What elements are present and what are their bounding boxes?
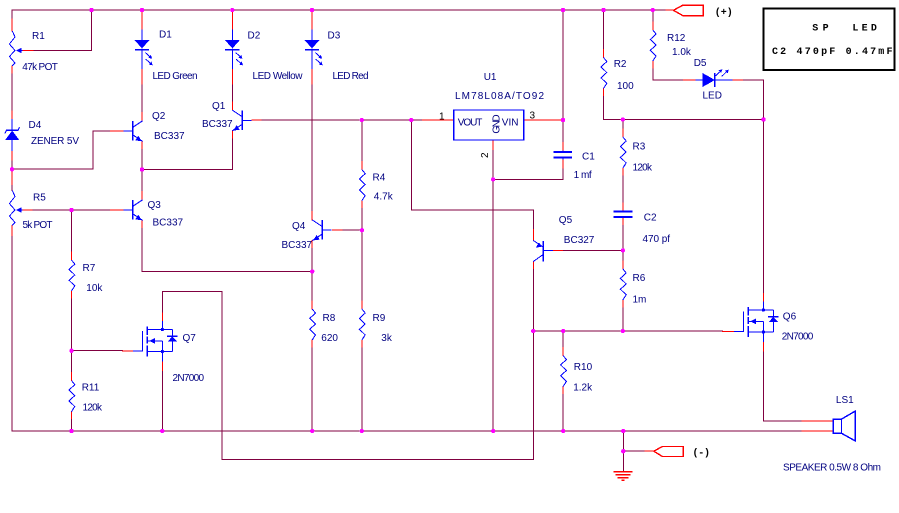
- svg-text:Q3: Q3: [148, 200, 162, 211]
- junction Q3-Q4 emitter node: [310, 269, 314, 273]
- pin Q7 drain: [161, 313, 163, 321]
- pin Q2 base: [111, 130, 124, 132]
- pin U1 pin3 VIN: [524, 119, 563, 121]
- junction zener node: [10, 167, 14, 171]
- pin R2 top: [603, 50, 605, 58]
- transistor Q2 (BC337 BJT): [124, 121, 143, 142]
- junction ground drop: [621, 429, 625, 433]
- transistor Q1 (BC337 BJT): [232, 110, 251, 131]
- zener diode D4: [5, 119, 20, 151]
- pin R6 bottom: [622, 300, 624, 308]
- pin R9 bottom: [361, 340, 363, 348]
- wire D5 to node: [744, 80, 764, 120]
- pin R1 top: [11, 19, 13, 31]
- pin R4 bottom: [361, 201, 363, 209]
- pin C2 top: [622, 203, 624, 211]
- pin Q6 gate: [722, 331, 734, 333]
- pin U1 pin1 VOUT: [422, 119, 453, 121]
- svg-text:(+): (+): [715, 7, 733, 19]
- svg-text:R9: R9: [373, 313, 386, 324]
- svg-text:BC337: BC337: [202, 119, 233, 130]
- svg-text:1.2k: 1.2k: [573, 382, 593, 393]
- resistor R11: [69, 381, 75, 412]
- junction Q2 emitter node: [140, 167, 144, 171]
- junction Q5 base/C2/R6: [621, 248, 625, 252]
- wire node to minus connector: [623, 450, 645, 452]
- wire VIN node to C1: [562, 120, 564, 143]
- junction Q5 emitter branch: [409, 118, 413, 122]
- wire Q7 source to ground bus: [161, 371, 163, 431]
- resistor R2: [601, 58, 607, 89]
- wire top supply rail: [12, 9, 673, 11]
- wire node to R9: [361, 230, 363, 301]
- junction R2/R3 node: [621, 117, 625, 121]
- svg-text:LED Wellow: LED Wellow: [253, 71, 304, 82]
- wire node to Q7 gate: [72, 350, 123, 352]
- svg-text:470 pf: 470 pf: [643, 234, 671, 245]
- capacitor C2: [614, 211, 633, 217]
- wire node to R4: [361, 120, 363, 161]
- wire R5 wiper to Q3 base: [33, 209, 111, 211]
- svg-text:D3: D3: [328, 31, 341, 42]
- ground: [613, 472, 632, 481]
- wire R9 to ground bus: [361, 348, 363, 431]
- svg-text:D4: D4: [29, 120, 42, 131]
- pin R11 top: [71, 373, 73, 381]
- svg-text:Q2: Q2: [152, 111, 166, 122]
- wire node to R7: [71, 210, 73, 252]
- junction R11/ground bus: [69, 429, 73, 433]
- svg-text:620: 620: [321, 333, 338, 344]
- pin Q6 drain: [762, 293, 764, 301]
- pin R8 top: [311, 301, 313, 309]
- svg-text:R2: R2: [614, 59, 627, 70]
- wire R5 bottom to ground bus: [11, 237, 13, 432]
- pin R11 bottom: [71, 412, 73, 420]
- wire node to R6: [622, 250, 624, 261]
- pin D5 cathode: [732, 79, 743, 81]
- svg-text:4.7k: 4.7k: [374, 191, 394, 202]
- pin C1 top: [562, 143, 564, 151]
- pin Q5 collector: [532, 262, 534, 270]
- wire node to ground symbol: [622, 451, 624, 471]
- resistor R10: [561, 356, 567, 387]
- wire Q5 collector to gate bus: [532, 270, 534, 332]
- pin C1 bottom: [562, 159, 564, 169]
- junction Q4 base/R4/R9: [360, 228, 364, 232]
- wire node to Q6 drain: [763, 120, 765, 294]
- pin R5 wiper: [23, 209, 33, 211]
- svg-text:BC337: BC337: [154, 131, 185, 142]
- svg-text:R4: R4: [373, 173, 386, 184]
- svg-text:Q1: Q1: [212, 101, 226, 112]
- pin D5 anode: [684, 79, 696, 81]
- node (-) supply connector: [654, 447, 684, 457]
- pin R3 top: [622, 129, 624, 137]
- svg-text:C1: C1: [582, 152, 595, 163]
- op-amp U1 LM78L08A/TO92 regulator box: [454, 110, 524, 140]
- svg-text:3: 3: [530, 111, 536, 122]
- svg-text:2N7000: 2N7000: [782, 332, 814, 343]
- wire gate bus to R10: [562, 331, 564, 348]
- pin R3 bottom: [622, 168, 624, 176]
- svg-text:R1: R1: [32, 31, 45, 42]
- wire ground bus: [12, 430, 802, 432]
- pin Q4 emitter: [311, 241, 313, 249]
- transistor Q4 (BC337 BJT): [312, 220, 331, 241]
- svg-text:Q5: Q5: [559, 215, 573, 226]
- pin R7 top: [71, 252, 73, 260]
- resistor R9: [359, 309, 365, 340]
- svg-text:D1: D1: [159, 30, 172, 41]
- svg-text:BC327: BC327: [564, 235, 595, 246]
- wire R3 to C2: [622, 176, 624, 203]
- wire Q4 emitter to node: [311, 249, 313, 272]
- pin D2 anode: [231, 10, 233, 29]
- wire Q4 base to node: [343, 229, 362, 231]
- svg-text:1.0k: 1.0k: [672, 47, 692, 58]
- junction rail/R12: [651, 8, 655, 12]
- svg-text:R3: R3: [633, 141, 646, 152]
- wire C1 bottom to U1 GND: [493, 169, 563, 179]
- wire R11 to ground bus: [71, 420, 73, 431]
- annotation table (SP / LED values): [764, 9, 895, 70]
- wire rail to R12: [652, 10, 654, 22]
- svg-text:( - ): ( - ): [693, 448, 711, 460]
- pin Q3 collector: [141, 192, 143, 200]
- pin LS1 top terminal: [802, 420, 833, 422]
- junction rail/D2: [230, 8, 234, 12]
- resistor R6: [620, 269, 626, 300]
- pin R8 bottom: [311, 340, 313, 348]
- junction R10/gate bus: [561, 329, 565, 333]
- transistor Q3 (BC337 BJT): [124, 200, 143, 221]
- svg-text:C2: C2: [644, 213, 657, 224]
- pin R12 top: [652, 22, 654, 30]
- wire R2 bottom to node: [604, 97, 623, 120]
- pin plus connector: [666, 9, 673, 11]
- pin D2 cathode: [231, 69, 233, 85]
- wire node to R11: [71, 351, 73, 373]
- svg-text:5k POT: 5k POT: [23, 220, 53, 231]
- junction U1 GND/C1 node: [491, 177, 495, 181]
- node (+) supply connector: [673, 5, 703, 15]
- junction rail/D1: [140, 8, 144, 12]
- svg-text:R11: R11: [82, 382, 100, 393]
- pin D3 anode: [311, 10, 313, 29]
- svg-text:R7: R7: [83, 263, 96, 274]
- svg-text:ZENER 5V: ZENER 5V: [31, 136, 79, 147]
- potentiometer R5: [9, 190, 22, 225]
- transistor Q6 (2N7000 MOSFET): [734, 301, 779, 342]
- pin Q1 collector: [231, 102, 233, 110]
- pin Q1 base: [252, 119, 262, 121]
- transistor Q5 (BC327 PNP): [533, 241, 553, 262]
- wire node to R3: [622, 120, 624, 130]
- svg-text:U1: U1: [484, 72, 497, 83]
- wire node to R8: [311, 272, 313, 302]
- pin D3 cathode: [311, 69, 313, 85]
- wire D3 to Q4 collector: [311, 85, 313, 212]
- junction GND net/ground bus: [491, 429, 495, 433]
- speaker LS1: [833, 411, 855, 441]
- wire gate bus to Q6: [533, 330, 722, 332]
- svg-text:2: 2: [480, 152, 491, 158]
- pin R9 top: [361, 301, 363, 309]
- pin Q5 emitter: [532, 229, 534, 240]
- pin R12 bottom: [652, 61, 654, 69]
- wire Q1 base to U1 pin1: [262, 119, 422, 121]
- wire node to D5 net: [623, 119, 764, 121]
- svg-text:R6: R6: [633, 273, 646, 284]
- junction R7/Q7 gate: [69, 349, 73, 353]
- svg-text:LS1: LS1: [836, 395, 854, 406]
- pin Q7 gate: [123, 350, 133, 352]
- potentiometer R1: [9, 31, 22, 66]
- svg-text:LED: LED: [852, 24, 877, 35]
- pin R7 bottom: [71, 291, 73, 299]
- pin Q4 collector: [311, 212, 313, 220]
- wire node to Q3 collector: [141, 170, 143, 192]
- svg-text:LED: LED: [703, 91, 722, 102]
- svg-text:1 mf: 1 mf: [574, 170, 592, 181]
- svg-text:VOUT: VOUT: [458, 117, 483, 128]
- wire zener node to Q2 base: [12, 131, 110, 169]
- transistor Q7 (2N7000 MOSFET): [133, 321, 178, 362]
- junction R4 top node: [360, 118, 364, 122]
- pin Q5 base: [553, 249, 563, 251]
- resistor R8: [310, 309, 316, 340]
- resistor R12: [650, 30, 656, 61]
- junction R9/ground bus: [360, 429, 364, 433]
- junction rail/VIN column: [561, 8, 565, 12]
- svg-text:Q6: Q6: [783, 312, 797, 323]
- LED D3: [305, 29, 323, 69]
- junction rail/D3: [310, 8, 314, 12]
- wire Q7 drain to Q5 collector net: [162, 291, 533, 459]
- pin D4 cathode: [11, 111, 13, 119]
- svg-text:47k POT: 47k POT: [22, 62, 58, 73]
- svg-text:LM78L08A/TO92: LM78L08A/TO92: [455, 91, 544, 102]
- svg-text:3k: 3k: [381, 333, 393, 344]
- svg-text:R10: R10: [574, 362, 593, 373]
- pin C2 bottom: [622, 218, 624, 226]
- svg-text:R8: R8: [323, 313, 336, 324]
- junction R8/ground bus: [310, 429, 314, 433]
- wire node to R5 top: [11, 169, 13, 171]
- junction minus connector node: [621, 449, 625, 453]
- svg-text:1: 1: [439, 111, 445, 122]
- pin R4 top: [361, 161, 363, 169]
- wire Q1 emitter to Q2 emitter node: [142, 139, 232, 170]
- LED D5: [695, 69, 732, 87]
- pin minus connector: [645, 450, 654, 452]
- junction VIN/C1 node: [561, 118, 565, 122]
- svg-text:Q7: Q7: [183, 333, 197, 344]
- wire rail to VIN node: [562, 10, 564, 120]
- pin D1 cathode: [141, 69, 143, 85]
- svg-text:LED Red: LED Red: [333, 71, 369, 82]
- pin D4 anode: [11, 151, 13, 161]
- pin R6 top: [622, 261, 624, 269]
- svg-text:BC337: BC337: [282, 240, 313, 251]
- wire R8 to ground bus: [311, 348, 313, 431]
- pin Q6 source: [762, 342, 764, 352]
- svg-text:10k: 10k: [86, 283, 103, 294]
- svg-text:1m: 1m: [633, 294, 647, 305]
- pin R10 bottom: [562, 387, 564, 395]
- junction R10/ground bus: [561, 429, 565, 433]
- wire C2 to node: [622, 226, 624, 251]
- pin Q3 base: [111, 209, 124, 211]
- resistor R7: [69, 260, 75, 291]
- wire D2 to Q1 collector: [231, 85, 233, 102]
- wire Q3 emitter to R8 node: [142, 228, 312, 271]
- wire rail to R2: [603, 10, 605, 50]
- svg-text:LED Green: LED Green: [153, 71, 198, 82]
- junction rail/R1 wiper: [89, 8, 93, 12]
- wire R6 to gate bus: [622, 308, 624, 331]
- pin Q7 source: [161, 361, 163, 371]
- LED D1: [135, 29, 153, 69]
- wire Q5 base to node: [564, 249, 623, 251]
- wire GND net to ground bus: [492, 179, 494, 431]
- wire Q6 source to speaker: [763, 352, 802, 421]
- wire U1 GND to node: [492, 151, 494, 180]
- svg-text:D2: D2: [248, 31, 261, 42]
- wire R1 wiper to rail: [33, 10, 92, 51]
- svg-text:2N7000: 2N7000: [173, 373, 205, 384]
- resistor R3: [620, 137, 626, 168]
- wire R12 to D5: [653, 69, 684, 80]
- wire Q7 drain up: [161, 291, 163, 312]
- svg-text:VIN: VIN: [502, 117, 519, 128]
- capacitor C1: [554, 150, 573, 159]
- pin R1 bottom: [11, 66, 13, 74]
- pin Q4 base: [332, 229, 343, 231]
- pin Q2 collector: [141, 113, 143, 121]
- pin Q3 emitter: [141, 220, 143, 228]
- svg-text:C2 470pF 0.47mF: C2 470pF 0.47mF: [772, 47, 893, 58]
- pin R10 top: [562, 348, 564, 356]
- svg-text:R5: R5: [33, 193, 46, 204]
- svg-text:BC337: BC337: [153, 218, 184, 229]
- wire R7 to Q7 gate node: [71, 299, 73, 351]
- junction Q7 source/ground bus: [160, 429, 164, 433]
- wire D4 to node: [11, 161, 13, 169]
- svg-text:120k: 120k: [83, 402, 104, 413]
- wire node to Q5 emitter: [411, 120, 533, 229]
- wire rail to R1 top: [11, 10, 13, 19]
- pin D1 anode: [141, 10, 143, 29]
- pin R2 bottom: [603, 89, 605, 97]
- wire R1 to D4: [11, 74, 13, 111]
- junction D5/Q6 drain node: [761, 117, 765, 121]
- junction R5 wiper/R7: [69, 208, 73, 212]
- svg-text:D5: D5: [694, 58, 707, 69]
- pin R5 top: [11, 171, 13, 185]
- pin Q2 emitter: [141, 141, 143, 149]
- wire Q2 emitter to node: [141, 149, 143, 169]
- svg-text:Q4: Q4: [292, 221, 306, 232]
- svg-text:R12: R12: [667, 33, 686, 44]
- junction Q5 collector/gate bus: [531, 329, 535, 333]
- svg-text:SPEAKER 0.5W 8 Ohm: SPEAKER 0.5W 8 Ohm: [783, 463, 881, 474]
- pin LS1 bottom terminal: [802, 430, 833, 432]
- wire to R5 zigzag: [11, 186, 13, 191]
- resistor R4: [359, 170, 365, 201]
- pin U1 pin2 GND: [492, 140, 494, 151]
- svg-text:100: 100: [617, 81, 634, 92]
- wire D1 to Q2 collector: [141, 85, 143, 113]
- wire R10 to ground bus: [562, 395, 564, 432]
- svg-text:120k: 120k: [633, 163, 654, 174]
- LED D2: [225, 29, 243, 69]
- wire ground bus to node: [622, 431, 624, 451]
- pin R5 bottom: [11, 226, 13, 237]
- pin Q1 emitter: [231, 131, 233, 139]
- junction R6/gate bus: [621, 329, 625, 333]
- pin R1 wiper: [23, 50, 33, 52]
- junction rail/R2: [601, 8, 605, 12]
- wire R4 to Q4 base node: [361, 209, 363, 231]
